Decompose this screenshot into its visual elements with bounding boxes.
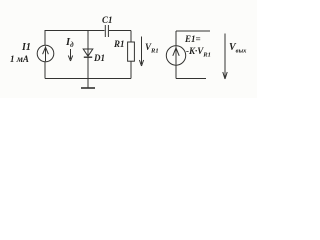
svg-text:I1: I1 bbox=[21, 42, 31, 53]
svg-text:-K·VR1: -K·VR1 bbox=[186, 46, 211, 59]
resistor R1 rectangle bbox=[128, 42, 135, 61]
current source I1 circle with up arrow bbox=[37, 45, 54, 62]
svg-text:Iд: Iд bbox=[65, 37, 74, 49]
wire diode branch upper bbox=[87, 31, 89, 57]
current arrow Id (diode current, downward) bbox=[68, 49, 72, 61]
voltage arrow Vout (downward, output) bbox=[223, 34, 227, 80]
svg-text:D1: D1 bbox=[93, 53, 105, 63]
wire R1 branch lower bbox=[130, 61, 132, 78]
wire left branch upper bbox=[44, 30, 46, 46]
capacitor C1 plates bbox=[105, 25, 108, 37]
wire diode branch lower bbox=[87, 57, 89, 78]
wire left branch lower bbox=[44, 62, 46, 79]
controlled voltage source E1 circle with up arrow bbox=[166, 46, 185, 65]
wire top-right horizontal (output port, upper) bbox=[176, 30, 210, 32]
wire bottom of left loop bbox=[45, 78, 131, 80]
wire top-right segment from C1 to R1 bbox=[109, 30, 131, 32]
wire R1 branch upper bbox=[130, 31, 132, 43]
svg-text:Vвых: Vвых bbox=[229, 42, 247, 55]
voltage arrow VR1 (downward beside R1) bbox=[139, 37, 143, 67]
svg-text:C1: C1 bbox=[102, 15, 113, 25]
svg-text:1 мА: 1 мА bbox=[10, 54, 29, 64]
wire bottom-right horizontal (output port, lower) bbox=[176, 78, 206, 80]
svg-text:R1: R1 bbox=[113, 39, 125, 49]
wire bottom of controlled-source branch bbox=[175, 65, 177, 78]
ground symbol bbox=[81, 79, 95, 89]
svg-text:VR1: VR1 bbox=[145, 42, 159, 55]
diode D1 (anode top, cathode bar bottom) bbox=[83, 49, 93, 57]
svg-text:E1=: E1= bbox=[184, 34, 201, 44]
wire top-left segment from I1 to C1 bbox=[45, 30, 105, 32]
wire top of controlled-source branch bbox=[175, 31, 177, 46]
